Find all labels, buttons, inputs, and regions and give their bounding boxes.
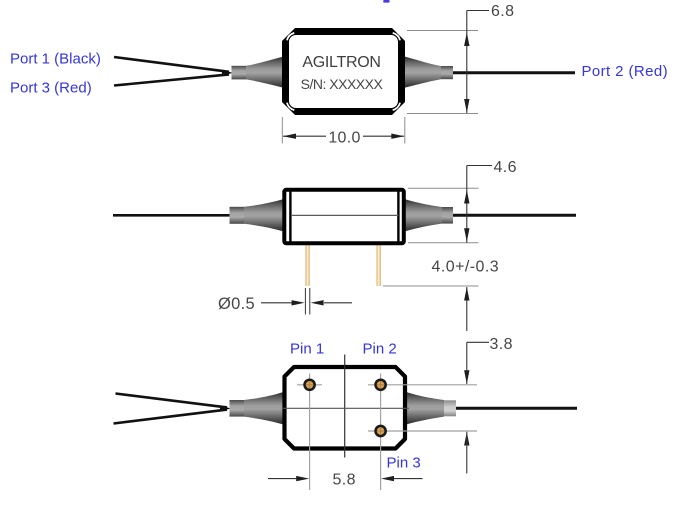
fiber (bottom view lower left) (114, 410, 228, 424)
svg-text:Port 2 (Red): Port 2 (Red) (582, 63, 669, 80)
svg-text:Pin 1: Pin 1 (290, 341, 324, 358)
right connector cone (bottom view) (407, 392, 456, 424)
svg-text:6.8: 6.8 (491, 3, 514, 20)
svg-text:5.8: 5.8 (333, 472, 356, 489)
fiber (bottom view upper left) (116, 394, 232, 412)
svg-text:4.0+/-0.3: 4.0+/-0.3 (432, 259, 500, 276)
label Pin 3 (387, 455, 421, 472)
fiber (side view left) (113, 214, 231, 217)
pin lead left (side view) (305, 245, 310, 286)
label Port 1 (Black) (10, 51, 101, 68)
svg-text:Pin 2: Pin 2 (363, 341, 397, 358)
svg-text:4.6: 4.6 (494, 159, 517, 176)
pin lead right (side view) (376, 245, 381, 286)
left connector cone (top view) (232, 57, 284, 88)
svg-text:AGILTRON: AGILTRON (302, 54, 380, 71)
svg-text:Port 3 (Red): Port 3 (Red) (10, 80, 92, 97)
fiber Port 2 (top view right) (452, 71, 575, 74)
svg-text:Pin 3: Pin 3 (387, 455, 421, 472)
cropped title descender (383, 0, 389, 3)
dimension 4.6 (408, 159, 517, 243)
fiber (side view right) (452, 214, 576, 217)
label Pin 1 (290, 341, 324, 358)
left connector cone (bottom view) (230, 392, 283, 424)
label AGILTRON (302, 54, 380, 71)
svg-text:Port 1 (Black): Port 1 (Black) (10, 51, 101, 68)
svg-text:Ø0.5: Ø0.5 (218, 295, 255, 313)
dimension 3.8 (464, 336, 513, 474)
svg-text:3.8: 3.8 (490, 336, 513, 353)
dimension 10.0 (282, 117, 405, 146)
dimension 4.0+/-0.3 (383, 259, 499, 332)
svg-text:10.0: 10.0 (328, 129, 360, 146)
dimension 6.8 (407, 3, 514, 114)
svg-text:S/N: XXXXXX: S/N: XXXXXX (301, 76, 384, 92)
label S/N: XXXXXX (301, 76, 384, 92)
dimension 5.8 (268, 472, 423, 489)
label Port 3 (Red) (10, 80, 92, 97)
dimension Ø0.5 (218, 288, 352, 315)
pin 1 (bottom view) (305, 380, 315, 390)
pin 2 (bottom view) (376, 380, 386, 390)
device body (side view) (284, 190, 404, 244)
label Pin 2 (363, 341, 397, 358)
fiber (bottom view right) (455, 407, 577, 410)
pin 3 crosshair (368, 430, 477, 432)
vertical centerline (bottom view) (344, 355, 346, 458)
fiber Port 3 (top view lower left) (114, 74, 229, 85)
label Port 2 (Red) (582, 63, 669, 80)
fiber Port 1 (top view upper left) (114, 57, 233, 76)
right connector cone (side view) (405, 199, 453, 231)
pin 1 crosshair (297, 374, 322, 491)
right connector cone (top view) (405, 57, 453, 88)
pin 3 (bottom view) (376, 426, 386, 436)
device body (top view) (282, 28, 405, 115)
left connector cone (side view) (230, 199, 284, 231)
horizontal centerline (bottom view) (283, 407, 409, 409)
device body (bottom view) (285, 367, 406, 449)
pin 2 crosshair (368, 374, 477, 491)
